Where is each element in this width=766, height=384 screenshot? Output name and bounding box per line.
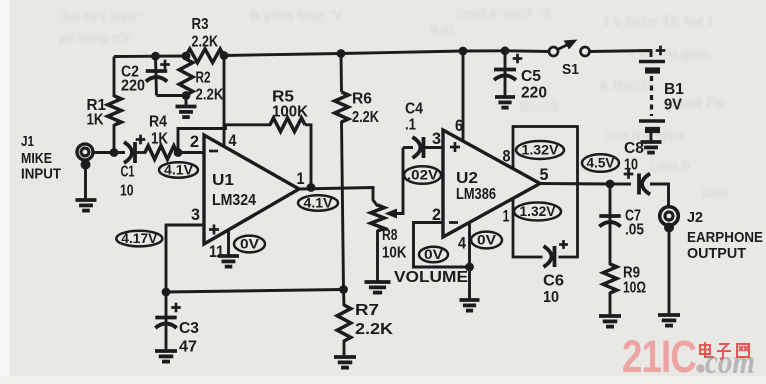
resistor R2 [179, 59, 193, 95]
wire top supply rail left segment [114, 55, 186, 58]
svg-text:21IC: 21IC [622, 331, 696, 382]
node C3 junction [162, 288, 171, 297]
capacitor C3 [165, 292, 168, 350]
capacitor C1 [124, 142, 132, 163]
svg-text:VOLUME: VOLUME [394, 269, 468, 286]
resistor R7 [342, 290, 345, 307]
svg-text:C5: C5 [521, 68, 541, 85]
wire U1 pin 2 [178, 151, 204, 154]
svg-text:100K: 100K [272, 104, 308, 121]
wire C8 to J2 [650, 184, 669, 207]
svg-text:C4: C4 [405, 101, 423, 118]
node R4-pin2 junction [174, 148, 183, 157]
ground below U1 pin 11 [218, 256, 239, 267]
wire rail to U2 pin 6 [462, 51, 465, 142]
wire U2 output [540, 182, 631, 185]
svg-text:3: 3 [191, 206, 200, 224]
battery B1 9V [656, 46, 666, 56]
wire J1 to ground [81, 160, 91, 170]
svg-text:C3: C3 [179, 320, 199, 337]
svg-text:LM324: LM324 [212, 192, 256, 209]
svg-text:2: 2 [190, 133, 199, 151]
resistor R1 [108, 96, 122, 125]
node rail-pin6 junction [459, 47, 468, 56]
svg-text:S1: S1 [562, 61, 579, 78]
svg-text:R3: R3 [192, 16, 209, 33]
oval 0V at pin 11 [234, 236, 265, 253]
svg-text:LM386: LM386 [456, 186, 496, 203]
svg-text:R8: R8 [382, 227, 398, 244]
ground below J2 [658, 315, 680, 326]
node output-C7 junction [606, 180, 615, 189]
svg-text:Smit s’ tsdT ’ti: Smit s’ tsdT ’ti [455, 5, 550, 21]
connector J2 earphone output jack [660, 207, 679, 226]
gain-set box around 1.32V labels [513, 127, 578, 258]
svg-text:R6: R6 [352, 91, 372, 108]
svg-text:R4: R4 [149, 114, 167, 131]
oval 4.17V at pin 3 [116, 231, 162, 247]
svg-text:EARPHONE: EARPHONE [687, 229, 763, 246]
svg-text:2.2K: 2.2K [352, 109, 379, 126]
wire C4 to U2 pin 3 [424, 146, 444, 149]
node rail-C5 junction [501, 46, 510, 55]
svg-text:U1: U1 [212, 172, 234, 189]
capacitor C2 [160, 60, 170, 70]
svg-text:Dris: Dris [702, 185, 729, 201]
wire R5 right end down to U1 output [305, 125, 311, 188]
svg-text:C6: C6 [543, 273, 564, 290]
svg-text:B1: B1 [664, 81, 684, 98]
wire J2 to ground [668, 226, 671, 314]
ground below R9 [599, 316, 621, 327]
ground below R8 [365, 282, 391, 293]
svg-text:4.1V: 4.1V [164, 163, 193, 178]
wire pin2 node up and over to R5 [178, 125, 271, 153]
svg-text:2.2K: 2.2K [196, 87, 224, 104]
svg-text:220: 220 [121, 78, 145, 95]
svg-text:b ysm bsq ’V: b ysm bsq ’V [250, 7, 343, 24]
oval 0V at U2 pin 2 [419, 247, 448, 263]
node rail-R6 junction [337, 49, 346, 58]
svg-text:47: 47 [179, 339, 197, 356]
node rail-C2 junction [151, 52, 160, 61]
wire U1 pin 11 to ground [227, 230, 230, 256]
capacitor C5 [513, 54, 523, 64]
svg-text:4: 4 [458, 235, 467, 253]
svg-text:8: 8 [503, 148, 511, 166]
svg-text:C8: C8 [624, 140, 644, 157]
svg-text:MIKE: MIKE [21, 150, 52, 167]
wire bias rail to C3 [166, 290, 344, 293]
svg-text:J2: J2 [687, 209, 703, 226]
svg-text:6: 6 [455, 117, 463, 135]
ground below U2 pin 4 [460, 300, 480, 311]
svg-text:1.32V: 1.32V [522, 143, 559, 158]
node rail-R2-R3 junction [182, 52, 191, 61]
oval 1.32V at pin 8 [516, 141, 564, 159]
svg-text:5: 5 [540, 166, 549, 184]
svg-text:t frn Tu grsc: t frn Tu grsc [630, 45, 711, 61]
svg-text:4.1V: 4.1V [304, 196, 333, 211]
node bias divider junction [339, 285, 348, 294]
svg-text:1: 1 [297, 170, 305, 188]
svg-text:A trobls: A trobls [598, 77, 654, 94]
svg-text:0V: 0V [240, 237, 259, 252]
svg-text:Lwo b: Lwo b [650, 157, 690, 173]
oval 0V at U2 pin 4 [471, 232, 502, 249]
wire C2 bottom to R2 bottom [157, 94, 187, 97]
wire U1 pin 3 [166, 225, 204, 292]
svg-text:J1: J1 [21, 133, 34, 150]
svg-text:10: 10 [624, 157, 638, 174]
svg-text:4.17V: 4.17V [121, 231, 157, 246]
node R2 bottom junction [182, 91, 191, 100]
svg-text:3: 3 [432, 130, 441, 148]
svg-text:.02V: .02V [407, 168, 438, 183]
svg-text:0V: 0V [477, 233, 496, 248]
op-amp U2 LM386 triangle [443, 130, 540, 237]
wire R6 down across output line to bias node [342, 121, 344, 290]
ground below R2 [176, 107, 197, 118]
capacitor C8 [637, 174, 641, 195]
op-amp U1 LM324 triangle [204, 135, 299, 244]
ground below C5 [495, 97, 515, 108]
svg-text:2.2K: 2.2K [355, 321, 394, 338]
ground below C3 [155, 351, 177, 362]
svg-text:1: 1 [503, 208, 510, 226]
connector J1 mike input jack [77, 144, 93, 160]
wire J1 to C1 [94, 151, 125, 154]
svg-text:t s twhr Th for t: t s twhr Th for t [604, 13, 713, 30]
wire U2 pin 2 loop [414, 223, 470, 268]
wire rail left end down to input node [113, 57, 116, 98]
svg-text:R7: R7 [355, 302, 379, 319]
oval .02V at U2 pin 3 [404, 166, 441, 184]
resistor R4 [145, 146, 177, 160]
svg-text:4.5V: 4.5V [587, 156, 615, 171]
svg-text:10: 10 [543, 289, 559, 306]
node R1-input junction [110, 148, 119, 157]
ground below R7 [334, 357, 356, 368]
wire top supply rail right segment [224, 51, 550, 56]
potentiometer R8 volume [371, 205, 385, 231]
node pin2-pin4 junction [465, 263, 474, 272]
capacitor C7 [609, 184, 612, 265]
resistor R5 [270, 118, 305, 132]
wire U1 output to volume pot [299, 188, 378, 207]
oval 4.5V at output [582, 154, 619, 172]
svg-text:220: 220 [521, 85, 547, 102]
wire rail from switch to battery [590, 51, 652, 58]
svg-text:1.32V: 1.32V [520, 204, 556, 219]
resistor R3 [186, 49, 224, 63]
oval 4.1V at U1 output [298, 195, 338, 210]
capacitor C4 [403, 146, 413, 149]
svg-text:R2: R2 [196, 70, 211, 87]
svg-text:OUTPUT: OUTPUT [687, 245, 746, 262]
watermark CJK text [700, 342, 749, 359]
svg-text:.05: .05 [625, 222, 644, 239]
ground below J1 [76, 200, 97, 211]
wire U2 pin 4 to ground [468, 222, 471, 299]
resistor R9 [603, 264, 617, 293]
svg-text:bnsrl: bnsrl [520, 99, 557, 116]
svg-text:yd’niog n’s: yd’niog n’s [58, 29, 132, 45]
svg-text:.1: .1 [405, 117, 416, 134]
ground below B1 [641, 142, 662, 153]
svg-text:C1: C1 [121, 164, 135, 181]
svg-text:9V: 9V [664, 97, 682, 114]
svg-text:INPUT: INPUT [21, 166, 61, 183]
svg-text:10Ω: 10Ω [623, 280, 646, 297]
wire R8 wiper to C4 [396, 148, 403, 214]
oval 1.32V at pin 1 [514, 203, 561, 221]
svg-text:11: 11 [209, 243, 224, 261]
svg-text:0V: 0V [424, 247, 443, 262]
svg-text:10K: 10K [382, 245, 407, 262]
wire rail to U1 pin 4 [223, 56, 226, 148]
svg-text:U2: U2 [456, 170, 478, 187]
svg-text:2.2K: 2.2K [192, 34, 219, 51]
switch S1 [549, 47, 558, 56]
svg-text:10: 10 [120, 183, 134, 200]
capacitor C6 on box bottom edge [543, 245, 559, 268]
oval 4.1V at pin 2 [159, 162, 198, 177]
node rail-pin4 junction [220, 51, 229, 60]
svg-text:4: 4 [229, 132, 238, 150]
node U1 output-R5 junction [307, 183, 316, 192]
resistor R6 [340, 54, 343, 93]
svg-text:ilw ts’i nso’: ilw ts’i nso’ [60, 9, 141, 26]
svg-text:it nl: it nl [430, 22, 453, 37]
svg-text:1K: 1K [87, 112, 104, 129]
svg-text:1K: 1K [151, 131, 168, 148]
